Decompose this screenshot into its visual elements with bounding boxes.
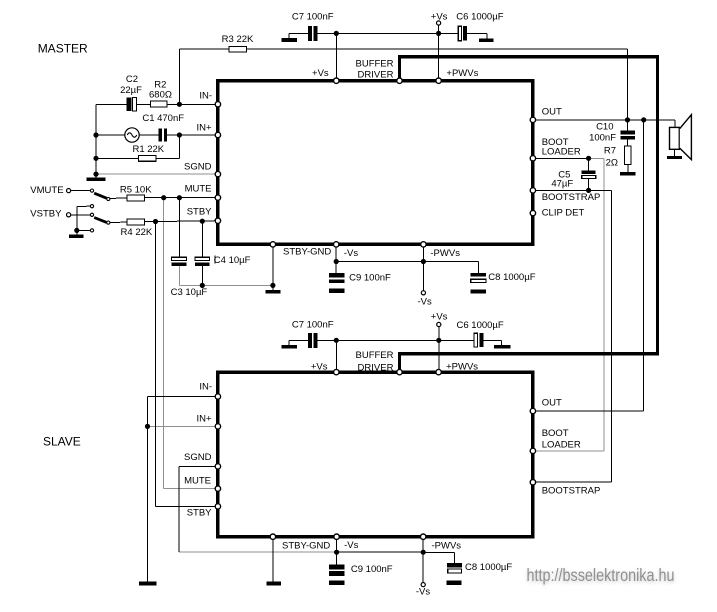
svg-text:C7 100nF: C7 100nF [292, 11, 334, 22]
svg-text:VSTBY: VSTBY [30, 209, 62, 220]
svg-text:-Vs: -Vs [344, 248, 359, 259]
svg-text:R7: R7 [604, 146, 616, 157]
svg-text:+Vs: +Vs [431, 312, 448, 323]
svg-text:+Vs: +Vs [312, 68, 329, 79]
svg-text:SGND: SGND [184, 452, 212, 463]
svg-text:STBY: STBY [187, 206, 212, 217]
svg-text:MUTE: MUTE [185, 184, 212, 195]
svg-text:C1 470nF: C1 470nF [142, 113, 184, 124]
svg-text:C9 100nF: C9 100nF [349, 272, 391, 283]
svg-text:C7 100nF: C7 100nF [292, 319, 334, 330]
svg-text:+PWVs: +PWVs [446, 361, 478, 372]
svg-text:SGND: SGND [184, 162, 212, 173]
svg-text:BOOT: BOOT [542, 428, 569, 439]
svg-text:CLIP DET: CLIP DET [542, 208, 585, 219]
svg-text:100nF: 100nF [589, 133, 616, 144]
svg-text:C9 100nF: C9 100nF [351, 564, 393, 575]
svg-text:47µF: 47µF [551, 178, 573, 189]
svg-text:C6 1000µF: C6 1000µF [457, 320, 504, 331]
svg-text:C2: C2 [126, 74, 138, 85]
svg-text:MASTER: MASTER [38, 42, 88, 56]
svg-text:22µF: 22µF [120, 85, 142, 96]
svg-text:BOOTSTRAP: BOOTSTRAP [542, 192, 601, 203]
svg-text:R1 22K: R1 22K [132, 144, 164, 155]
svg-text:-Vs: -Vs [417, 296, 432, 307]
svg-text:R4 22K: R4 22K [121, 227, 153, 238]
svg-text:+PWVs: +PWVs [446, 68, 478, 79]
svg-text:-Vs: -Vs [416, 586, 431, 597]
svg-text:VMUTE: VMUTE [30, 185, 63, 196]
svg-text:C10: C10 [596, 122, 613, 133]
svg-text:IN-: IN- [199, 90, 212, 101]
svg-text:2Ω: 2Ω [606, 157, 618, 168]
svg-text:MUTE: MUTE [184, 476, 211, 487]
svg-text:680Ω: 680Ω [149, 89, 172, 100]
svg-text:OUT: OUT [542, 398, 562, 409]
svg-text:DRIVER: DRIVER [358, 70, 394, 81]
svg-text:IN-: IN- [199, 381, 212, 392]
svg-text:IN+: IN+ [196, 123, 212, 134]
svg-text:BUFFER: BUFFER [356, 58, 394, 69]
svg-text:SLAVE: SLAVE [43, 435, 81, 449]
svg-text:C8 1000µF: C8 1000µF [465, 562, 512, 573]
svg-text:STBY: STBY [187, 507, 212, 518]
svg-text:STBY-GND: STBY-GND [283, 247, 331, 258]
svg-text:+Vs: +Vs [431, 11, 448, 22]
svg-text:STBY-GND: STBY-GND [282, 540, 330, 551]
svg-text:OUT: OUT [542, 107, 562, 118]
svg-text:DRIVER: DRIVER [358, 363, 394, 374]
svg-text:-Vs: -Vs [344, 540, 359, 551]
svg-text:C6 1000µF: C6 1000µF [456, 11, 503, 22]
svg-text:LOADER: LOADER [542, 147, 581, 158]
svg-text:BOOTSTRAP: BOOTSTRAP [542, 486, 601, 497]
svg-text:C3 10µF: C3 10µF [171, 287, 208, 298]
svg-text:IN+: IN+ [196, 414, 212, 425]
svg-text:-PWVs: -PWVs [432, 540, 462, 551]
svg-text:R3 22K: R3 22K [222, 34, 254, 45]
svg-text:http://bsselektronika.hu: http://bsselektronika.hu [527, 565, 675, 585]
svg-text:+Vs: +Vs [311, 361, 328, 372]
svg-text:C8 1000µF: C8 1000µF [488, 272, 535, 283]
svg-text:C4 10µF: C4 10µF [214, 255, 251, 266]
svg-text:BUFFER: BUFFER [356, 350, 394, 361]
svg-text:R5 10K: R5 10K [120, 185, 152, 196]
svg-text:LOADER: LOADER [542, 440, 581, 451]
svg-text:-PWVs: -PWVs [430, 248, 460, 259]
